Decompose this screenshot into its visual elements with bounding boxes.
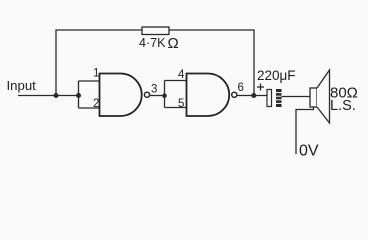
svg-text:0V: 0V <box>299 143 319 160</box>
svg-text:220μF: 220μF <box>257 68 296 83</box>
svg-text:Input: Input <box>7 78 37 93</box>
svg-text:4·7K: 4·7K <box>139 36 166 50</box>
svg-text:L.S.: L.S. <box>330 98 356 114</box>
svg-text:6: 6 <box>238 82 244 94</box>
svg-text:4: 4 <box>178 69 185 81</box>
svg-text:Ω: Ω <box>168 35 179 52</box>
svg-text:1: 1 <box>93 68 99 80</box>
svg-text:5: 5 <box>178 98 184 110</box>
svg-text:3: 3 <box>151 84 157 96</box>
svg-text:2: 2 <box>93 98 99 110</box>
